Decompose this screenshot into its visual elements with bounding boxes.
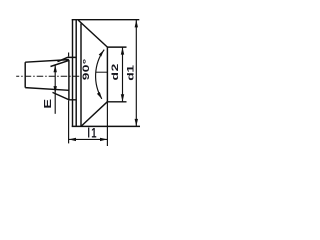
svg-text:d2: d2 (109, 63, 120, 81)
svg-text:E: E (42, 99, 53, 109)
svg-text:d1: d1 (125, 65, 136, 81)
svg-text:90°: 90° (80, 58, 91, 80)
svg-text:l1: l1 (87, 124, 97, 140)
